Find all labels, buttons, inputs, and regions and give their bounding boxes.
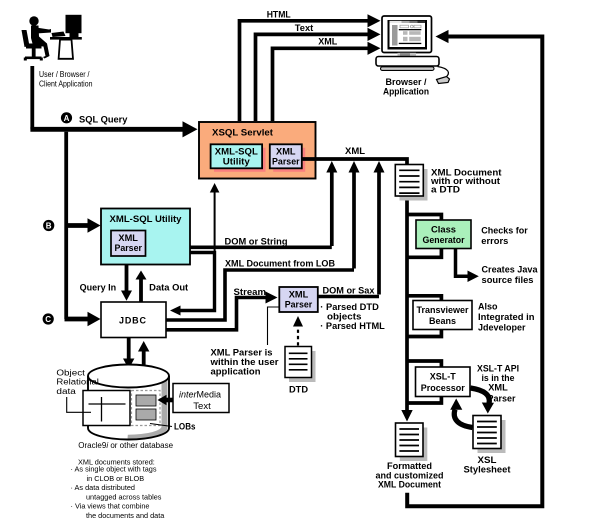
svg-text:Parser: Parser bbox=[272, 157, 300, 167]
wire JDBC to database down-arrow bbox=[123, 338, 134, 370]
svg-text:Checks for: Checks for bbox=[481, 226, 528, 236]
svg-text:C: C bbox=[45, 315, 51, 324]
svg-text:XML Parser is: XML Parser is bbox=[211, 347, 273, 357]
svg-text:XSL-T: XSL-T bbox=[430, 372, 457, 382]
svg-text:XSQL Servlet: XSQL Servlet bbox=[212, 128, 274, 139]
wire DOM or Sax (parser to pipe A3) bbox=[318, 295, 379, 299]
person arm bbox=[36, 28, 51, 34]
wire XML to browser bbox=[273, 42, 381, 121]
callout line from data label to table box bbox=[67, 397, 91, 412]
label also integrated in jdeveloper bbox=[478, 302, 535, 333]
label XSL stylesheet bbox=[464, 455, 511, 475]
LOB blocks bbox=[136, 395, 156, 406]
monitor neck bbox=[398, 53, 417, 56]
svg-text:errors: errors bbox=[481, 236, 508, 246]
svg-text:Text: Text bbox=[295, 23, 314, 33]
svg-text:source files: source files bbox=[482, 275, 534, 285]
monitor outer bbox=[382, 16, 432, 53]
wire branch rectangle for Transviewer Beans bbox=[407, 296, 441, 337]
label checks for errors bbox=[481, 226, 528, 246]
svg-text:XML Document from LOB: XML Document from LOB bbox=[225, 258, 335, 268]
wire stream (JDBC to XML parser) bbox=[166, 292, 278, 330]
svg-text:B: B bbox=[46, 222, 52, 231]
Transviewer Beans box bbox=[413, 301, 472, 330]
content cells bbox=[403, 31, 408, 35]
title bar gradient segments bbox=[390, 21, 402, 23]
svg-text:Stream: Stream bbox=[234, 287, 267, 297]
wire interMedia arrow into LOBs bbox=[158, 395, 173, 405]
browser window bbox=[390, 23, 426, 47]
svg-text:Parser: Parser bbox=[285, 299, 313, 309]
person head bbox=[29, 16, 38, 25]
node B bbox=[43, 220, 54, 231]
JDBC box bbox=[101, 302, 166, 338]
svg-text:· Via views that combine: · Via views that combine bbox=[71, 502, 150, 511]
svg-text:LOBs: LOBs bbox=[174, 421, 196, 431]
node A bbox=[61, 112, 72, 123]
wire big return loop bottom and right into browser bbox=[407, 30, 542, 506]
wire branch rectangle for Class Generator bbox=[407, 215, 441, 258]
wire from user down to SQL query line bbox=[30, 66, 34, 129]
svg-text:XSL: XSL bbox=[478, 455, 498, 465]
wire SQL query arrow into XSQL servlet bbox=[30, 121, 197, 137]
svg-text:Transviewer: Transviewer bbox=[417, 305, 469, 315]
svg-text:SQL Query: SQL Query bbox=[79, 115, 128, 125]
svg-text:a DTD: a DTD bbox=[431, 184, 461, 194]
screen bezel bbox=[388, 20, 428, 50]
svg-text:Relational: Relational bbox=[56, 378, 99, 387]
Class Generator box bbox=[416, 220, 471, 249]
LOBs dashed region bbox=[132, 391, 161, 426]
svg-text:HTML: HTML bbox=[267, 10, 291, 20]
XSQL Servlet box bbox=[199, 122, 316, 179]
label object relational data bbox=[56, 368, 99, 396]
svg-text:Query In: Query In bbox=[80, 283, 117, 293]
XML document icon (with or without a DTD) bbox=[395, 165, 427, 201]
base pad bbox=[381, 67, 435, 71]
chair base bbox=[25, 57, 42, 60]
svg-text:the documents and data: the documents and data bbox=[86, 511, 165, 520]
chair post bbox=[32, 49, 36, 58]
svg-text:Client Application: Client Application bbox=[39, 79, 93, 89]
callout line to LOBs label bbox=[150, 424, 172, 427]
wire XML output pipe from servlet parser, down right side bbox=[302, 159, 407, 417]
svg-text:data: data bbox=[56, 387, 76, 396]
svg-text:Object: Object bbox=[56, 368, 85, 377]
wire C arrow into JDBC bbox=[65, 312, 101, 326]
svg-text:XML: XML bbox=[318, 37, 338, 47]
svg-text:Browser /: Browser / bbox=[386, 77, 427, 87]
XML-SQL Utility box (standalone) bbox=[101, 209, 190, 265]
mouse cable bbox=[438, 67, 449, 78]
svg-text:Jdeveloper: Jdeveloper bbox=[478, 323, 526, 333]
svg-text:XML: XML bbox=[276, 147, 296, 157]
desk monitor bbox=[66, 15, 82, 33]
XML Parser box (user application) bbox=[279, 287, 318, 312]
desk top bbox=[50, 37, 82, 40]
sidebar bbox=[392, 25, 398, 46]
label formatted and customized XML document bbox=[376, 461, 444, 490]
wire data out arrow bbox=[136, 271, 147, 303]
svg-text:in CLOB or BLOB: in CLOB or BLOB bbox=[87, 474, 145, 483]
wire B arrow into XML-SQL Utility bbox=[65, 218, 101, 232]
XSL-T Processor box bbox=[416, 367, 471, 397]
svg-text:Parser: Parser bbox=[114, 243, 142, 253]
wire utility to JDBC (down at right) bbox=[170, 253, 215, 316]
wire up-arrow A2 (from LOB into pipe) bbox=[349, 161, 360, 269]
curved arrow XSL-T to stylesheet bbox=[471, 388, 495, 414]
dashed wire DTD to XML parser bbox=[293, 316, 303, 346]
svg-text:Also: Also bbox=[478, 302, 498, 312]
XML Parser box (inside utility) bbox=[111, 231, 146, 257]
label XML documents stored list bbox=[71, 458, 166, 520]
svg-text:JDBC: JDBC bbox=[119, 316, 148, 326]
svg-text:DTD: DTD bbox=[289, 384, 309, 394]
svg-text:User / Browser /: User / Browser / bbox=[39, 69, 90, 79]
toolbar fields bbox=[400, 25, 409, 28]
svg-text:Beans: Beans bbox=[429, 316, 456, 326]
wire trunk to B and C bbox=[64, 132, 68, 319]
curved arrow stylesheet to XSL-T bbox=[450, 399, 472, 428]
svg-text:application: application bbox=[211, 366, 261, 376]
desk leg bbox=[59, 40, 73, 59]
svg-text:is in the: is in the bbox=[482, 373, 515, 383]
svg-text:Integrated in: Integrated in bbox=[478, 312, 535, 322]
svg-text:objects: objects bbox=[327, 311, 362, 321]
svg-text:XML-SQL Utility: XML-SQL Utility bbox=[110, 214, 182, 224]
node C bbox=[43, 313, 54, 324]
svg-text:Data Out: Data Out bbox=[149, 283, 188, 293]
svg-text:interMedia: interMedia bbox=[179, 389, 221, 399]
svg-text:Utility: Utility bbox=[223, 157, 250, 167]
svg-text:· As single object with tags: · As single object with tags bbox=[71, 465, 157, 474]
svg-text:DOM or String: DOM or String bbox=[225, 236, 288, 246]
interMedia text box bbox=[173, 384, 229, 413]
svg-text:· As data distributed: · As data distributed bbox=[71, 483, 136, 492]
XSL stylesheet document icon bbox=[473, 416, 506, 454]
label XML Document with or without a DTD bbox=[430, 168, 502, 195]
object relational table box bbox=[83, 391, 130, 426]
wire DOM or String (utility to pipe A1) bbox=[190, 246, 332, 250]
rule top bbox=[399, 29, 422, 30]
svg-text:DOM or Sax: DOM or Sax bbox=[323, 285, 375, 295]
XML Parser box (in servlet) bbox=[270, 144, 305, 172]
svg-text:XML-SQL: XML-SQL bbox=[215, 147, 259, 157]
svg-text:Processor: Processor bbox=[421, 383, 465, 393]
svg-text:XSL-T API: XSL-T API bbox=[477, 364, 519, 374]
database cylinder bbox=[88, 365, 169, 440]
callout line from XML Parser to note bbox=[268, 307, 280, 345]
wire pipe down-arrow into formatted document bbox=[401, 410, 412, 422]
svg-text:untagged across tables: untagged across tables bbox=[86, 492, 162, 501]
browser/application icon bbox=[376, 16, 450, 84]
svg-text:XML: XML bbox=[345, 146, 366, 156]
svg-text:XML: XML bbox=[118, 233, 138, 243]
wire creates java source files arrow bbox=[456, 249, 479, 283]
formatted document icon bbox=[396, 423, 428, 461]
keyboard bbox=[52, 32, 66, 38]
rule bottom bbox=[399, 43, 422, 44]
chair seat bbox=[26, 44, 42, 49]
label browser/application bbox=[383, 77, 429, 97]
svg-text:A: A bbox=[64, 114, 70, 123]
svg-text:within the user: within the user bbox=[209, 357, 279, 367]
svg-text:Creates Java: Creates Java bbox=[482, 265, 539, 275]
svg-text:Generator: Generator bbox=[423, 235, 465, 245]
wire up-arrow A3 (DOM or Sax into pipe) bbox=[374, 161, 385, 295]
XML-SQL Utility box (in servlet) bbox=[211, 144, 266, 172]
svg-text:· Parsed HTML: · Parsed HTML bbox=[320, 321, 385, 331]
person torso and legs bbox=[31, 26, 50, 59]
wire database to JDBC up-arrow bbox=[138, 341, 149, 368]
wire branch rectangle for XSL-T Processor bbox=[407, 361, 441, 403]
wire up-arrow A1 (DOM or String into pipe) bbox=[326, 161, 337, 246]
user workstation icon bbox=[22, 15, 82, 61]
wire Text to browser bbox=[256, 28, 381, 121]
svg-text:Class: Class bbox=[431, 224, 456, 234]
mouse bbox=[437, 77, 450, 84]
wire thin arrow from utility line up into servlet bottom bbox=[210, 183, 220, 252]
svg-text:XML: XML bbox=[289, 289, 309, 299]
svg-text:Oracle9i or other database: Oracle9i or other database bbox=[78, 441, 173, 450]
DTD document icon bbox=[285, 347, 316, 383]
svg-text:XML Document: XML Document bbox=[378, 480, 441, 490]
svg-text:XML: XML bbox=[488, 383, 508, 393]
label XSL-T API is in the XML Parser bbox=[477, 364, 519, 404]
wire query in arrow bbox=[121, 265, 132, 301]
label creates java source files bbox=[482, 265, 539, 285]
wire XML document from LOB (JDBC up to pipe A2) bbox=[166, 270, 354, 320]
label XML parser is within the user application bbox=[209, 347, 279, 376]
svg-text:Stylesheet: Stylesheet bbox=[464, 465, 511, 475]
label parsed DTD objects / parsed HTML bbox=[320, 302, 385, 331]
svg-text:Text: Text bbox=[193, 401, 211, 411]
svg-text:Application: Application bbox=[383, 87, 429, 97]
chair back bbox=[22, 30, 30, 47]
wire HTML to browser bbox=[240, 14, 381, 121]
label user/browser/client application bbox=[39, 69, 93, 89]
keyboard base bbox=[376, 57, 439, 67]
